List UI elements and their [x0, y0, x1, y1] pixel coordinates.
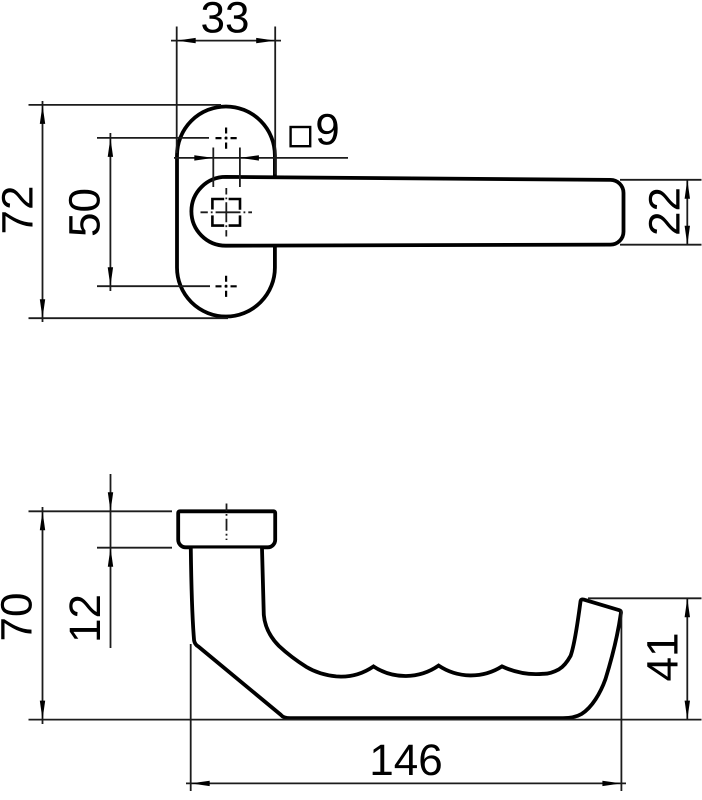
square 9 dimension extension lines [213, 148, 240, 188]
dimension 41 arrows [685, 598, 690, 719]
dimension 146 label [373, 744, 441, 775]
dimension 22 extension lines [620, 180, 702, 245]
dimension 72 arrows [40, 105, 45, 318]
dimension 12 extension line [97, 547, 172, 549]
dimension 72 label [2, 188, 33, 232]
dimension 72 extension lines [29, 105, 229, 318]
collar centerline (dash-dot) [226, 504, 228, 541]
dimension 22 label [649, 189, 680, 234]
dimension 12 label [69, 596, 100, 639]
dimension 50 label [69, 190, 100, 235]
dimension 12 arrows [108, 492, 113, 566]
dimension 22 line [686, 180, 688, 245]
dimension 12 line [110, 474, 112, 648]
dimension 50 arrows [108, 138, 113, 286]
dimension 72 line [42, 101, 44, 322]
dimension 146 extension lines [191, 611, 622, 792]
dimension 33 extension lines [177, 27, 276, 175]
lever handle (top view) [191, 177, 623, 246]
dimension 146 line [186, 782, 626, 784]
dimension 22 arrows [685, 180, 690, 245]
dimension 50 extension lines [97, 138, 210, 286]
dimension 41 line [686, 598, 688, 719]
dimension 70 extension lines [29, 511, 702, 719]
spindle centerline cross (dash-dot) [201, 188, 253, 237]
dimension 70 line [42, 507, 44, 724]
lower screw hole cross (dash-dot centermark) [216, 276, 237, 297]
dimension 33 arrows [177, 38, 276, 43]
dimension 41 label [647, 635, 677, 681]
square 9 dimension arrows [194, 155, 259, 160]
handle profile (side view) [191, 549, 621, 719]
dimension 33 line [171, 40, 281, 42]
rose plate outline (top view) [177, 106, 275, 316]
dimension 70 label [1, 594, 32, 639]
dimension 33 label [202, 2, 247, 33]
dimension 70 arrows [40, 511, 45, 719]
dimension 41 extension line [588, 597, 702, 599]
collar / rose (side view) [178, 511, 275, 547]
square symbol of label [291, 127, 311, 146]
dimension 50 line [109, 133, 111, 291]
dimension 146 arrows [191, 781, 622, 786]
square 9 label [317, 114, 337, 145]
square spindle hole (corner brackets) [212, 199, 240, 226]
square 9 dimension line [174, 157, 348, 159]
upper screw hole cross (dash-dot centermark) [216, 128, 237, 149]
